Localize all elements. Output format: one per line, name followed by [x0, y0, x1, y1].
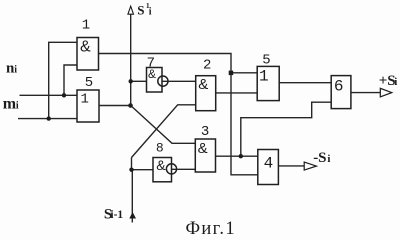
- arrow -Si output: [304, 162, 316, 170]
- inversion bubble U7: [158, 76, 168, 86]
- svg-text:i-1: i-1: [110, 209, 123, 221]
- wire ni input: [20, 94, 78, 96]
- AND gate U2 box: [196, 76, 216, 111]
- wire U4 output: [278, 165, 304, 167]
- junction S1i / U7: [129, 79, 133, 83]
- wire ni to U1 lower input: [64, 65, 77, 95]
- OR gate U5b box: [257, 66, 279, 100]
- wire diagonal S1i to U3 upper input: [131, 106, 196, 144]
- wire Si-1 to U8 input: [132, 169, 154, 171]
- junction node A: [229, 71, 234, 76]
- svg-text:i: i: [149, 7, 152, 18]
- junction S1i / U5a output: [128, 103, 133, 108]
- svg-text:&: &: [198, 140, 208, 157]
- svg-text:1: 1: [81, 92, 89, 108]
- arrow Si-1 input: [129, 212, 136, 219]
- svg-text:3: 3: [201, 124, 209, 140]
- OR gate U5a box: [77, 90, 99, 122]
- junction mi / U1: [47, 116, 51, 120]
- AND gate U1 box: [77, 38, 99, 71]
- wire U7 output to U2 upper input: [162, 80, 196, 82]
- svg-text:i: i: [16, 101, 19, 112]
- svg-text:1: 1: [82, 17, 90, 33]
- wire Si-1 vertical: [131, 158, 134, 223]
- wire U3 output to U4 upper input: [216, 155, 258, 157]
- wire U1 output to node A and U4 lower input: [99, 54, 258, 175]
- inversion bubble U8: [166, 164, 176, 174]
- svg-text:S: S: [137, 2, 144, 17]
- svg-text:5: 5: [262, 52, 270, 68]
- wire U5a output to S1i node: [99, 105, 131, 107]
- svg-text:5: 5: [85, 75, 93, 91]
- wire U5b output to U6 upper input: [279, 82, 331, 84]
- svg-text:&: &: [80, 38, 91, 55]
- wire U8 output to U3 lower input: [172, 168, 196, 170]
- svg-text:&: &: [148, 67, 156, 81]
- svg-text:1: 1: [259, 67, 269, 85]
- block U6 box: [331, 76, 351, 109]
- svg-text:i: i: [14, 65, 17, 76]
- wire mi input: [18, 118, 77, 120]
- wire mi to U1 upper input: [49, 42, 77, 118]
- wire node A branch to U5b upper input: [231, 72, 257, 74]
- wire node B riser to U6 lower input: [241, 102, 331, 156]
- svg-text:&: &: [198, 76, 208, 93]
- wire S1i to U7 input: [131, 80, 147, 82]
- inverter U8 box: [153, 158, 172, 182]
- svg-text:m: m: [3, 96, 17, 113]
- wire S1i vertical: [130, 9, 132, 106]
- wire U2 output to U5b lower input: [216, 92, 258, 94]
- svg-text:i: i: [394, 76, 397, 88]
- wire U6 output: [351, 92, 387, 94]
- wire diagonal Si-1 to U2 lower input: [132, 105, 196, 158]
- junction node B: [239, 154, 243, 158]
- svg-text:-S: -S: [313, 150, 326, 166]
- inverter U7 box: [147, 68, 163, 93]
- junction Si-1 / U8: [129, 168, 133, 172]
- svg-text:8: 8: [156, 141, 164, 156]
- svg-text:&: &: [156, 157, 166, 173]
- svg-text:i: i: [327, 153, 330, 165]
- arrow S1i output: [128, 6, 134, 14]
- svg-text:4: 4: [264, 155, 274, 173]
- svg-text:Фиг.1: Фиг.1: [186, 219, 236, 237]
- arrow +Si output: [380, 88, 392, 97]
- svg-text:+S: +S: [379, 73, 396, 89]
- svg-text:6: 6: [334, 77, 344, 95]
- svg-text:2: 2: [203, 57, 211, 73]
- AND gate U3 box: [195, 139, 215, 172]
- block U4 box: [258, 150, 279, 185]
- junction ni / U1: [62, 93, 66, 97]
